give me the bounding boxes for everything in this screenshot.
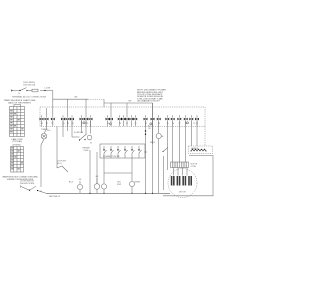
svg-text:19: 19 [193,123,195,125]
heater dashed box [189,146,213,154]
svg-text:13: 13 [145,123,147,125]
svg-text:11: 11 [126,123,128,125]
svg-text:W: W [40,191,42,193]
detergent dispenser solenoid [101,173,106,194]
svg-text:W: W [90,143,92,145]
contact terminal labels [41,123,198,125]
pressure switch label [57,161,66,165]
caption chart 2 bottom [2,176,38,181]
door switch lower left text [20,181,35,185]
svg-text:WM-3: WM-3 [150,142,155,144]
float switch cluster [72,131,92,145]
console dashed edge [204,127,206,147]
svg-text:CONN: CONN [191,166,197,168]
fuse F1 [27,89,38,92]
caption chart 1 [4,99,36,104]
timer chart table 1 [10,107,25,137]
svg-text:T9: T9 [107,123,109,125]
heater element [191,147,207,152]
selector switch box [100,144,145,158]
switch door interlock top [19,88,27,92]
node junction dots x145 [145,130,146,135]
wire top bus L1 [53,97,104,100]
svg-text:FUSE: FUSE [84,150,90,152]
heater relay coil [94,176,100,193]
svg-text:T8: T8 [86,123,88,125]
svg-text:T1: T1 [41,123,43,125]
svg-text:FILL: FILL [47,130,51,132]
neutral bus wire [46,193,170,194]
wire drops E cluster [173,120,197,162]
caption chart 1 bottom [11,138,23,143]
svg-text:12: 12 [135,123,137,125]
wire selector drops [104,158,132,173]
timer enclosure dashed box [40,107,205,127]
motor dashed circle [168,169,197,198]
wire drop B cluster [63,120,72,137]
wire riser x97 [96,152,98,184]
dispenser labels [117,182,141,186]
wire drop C cluster [82,120,91,134]
svg-text:PUSHBUTTON SW: PUSHBUTTON SW [103,156,120,158]
wires strip to motor [174,168,188,176]
terminal strip labels [191,164,198,168]
rinse aid solenoid [129,173,134,194]
bracket over chart 1 [14,105,21,107]
svg-text:(TYPICAL): (TYPICAL) [12,140,22,143]
switch lever lower left [57,166,68,172]
svg-text:T4: T4 [62,123,64,125]
table 1 cell marks [10,110,23,132]
table 2 cell marks [11,147,23,169]
svg-text:HL: HL [162,136,164,138]
svg-text:NEUTRAL W: NEUTRAL W [49,195,60,198]
svg-text:OR-ORANGE V-VIOLET: OR-ORANGE V-VIOLET [137,100,160,103]
wire L1 lead [12,89,21,92]
thermal cutout label [82,148,90,152]
water valve solenoid [41,133,47,139]
svg-text:HEATER: HEATER [191,147,199,150]
svg-text:(SHOWN OPEN): (SHOWN OPEN) [20,183,35,185]
svg-text:BACK OF THIS SHEET): BACK OF THIS SHEET) [8,101,31,104]
wire drops D cluster to bus [146,120,153,193]
timer contact stubs upper [42,91,198,127]
wire bus step down [104,99,153,107]
node rings under contacts [83,122,189,125]
timer chart table 2 [11,147,24,173]
node label POWER SUPPLY text [23,82,36,86]
svg-text:16: 16 [172,123,174,125]
wire valve to door switch [41,139,44,187]
door switch symbol [21,185,47,193]
wire middle riser x90 [89,150,91,193]
wire to bus [40,88,53,91]
motor windings [171,176,192,186]
drain solenoid [77,179,82,193]
wire drop A2 [52,120,54,124]
svg-text:10: 10 [119,123,121,125]
middle right text [148,125,155,143]
note block text [137,90,167,103]
svg-text:BK-9: BK-9 [69,182,73,184]
thermostat circle [144,120,168,193]
motor terminal strip [171,162,189,168]
svg-text:FLOAT SW: FLOAT SW [74,131,83,134]
svg-text:T7: T7 [81,123,83,125]
svg-text:L1 BK: L1 BK [45,88,51,90]
wire drop A1 to valve [44,120,47,133]
svg-text:MOTOR: MOTOR [179,191,186,193]
svg-text:TERMINAL BLOCK CONNECTIONS: TERMINAL BLOCK CONNECTIONS [12,95,47,98]
wire risers to motor left [164,120,168,190]
svg-text:RINSE: RINSE [135,182,141,184]
svg-text:(N.O.): (N.O.) [57,163,62,165]
selector contacts [103,146,142,158]
wire tall drop to selector [152,103,154,144]
wire left riser [56,127,58,169]
pump assembly outline [163,156,213,196]
svg-text:120V 60HZ 15A: 120V 60HZ 15A [23,83,36,86]
